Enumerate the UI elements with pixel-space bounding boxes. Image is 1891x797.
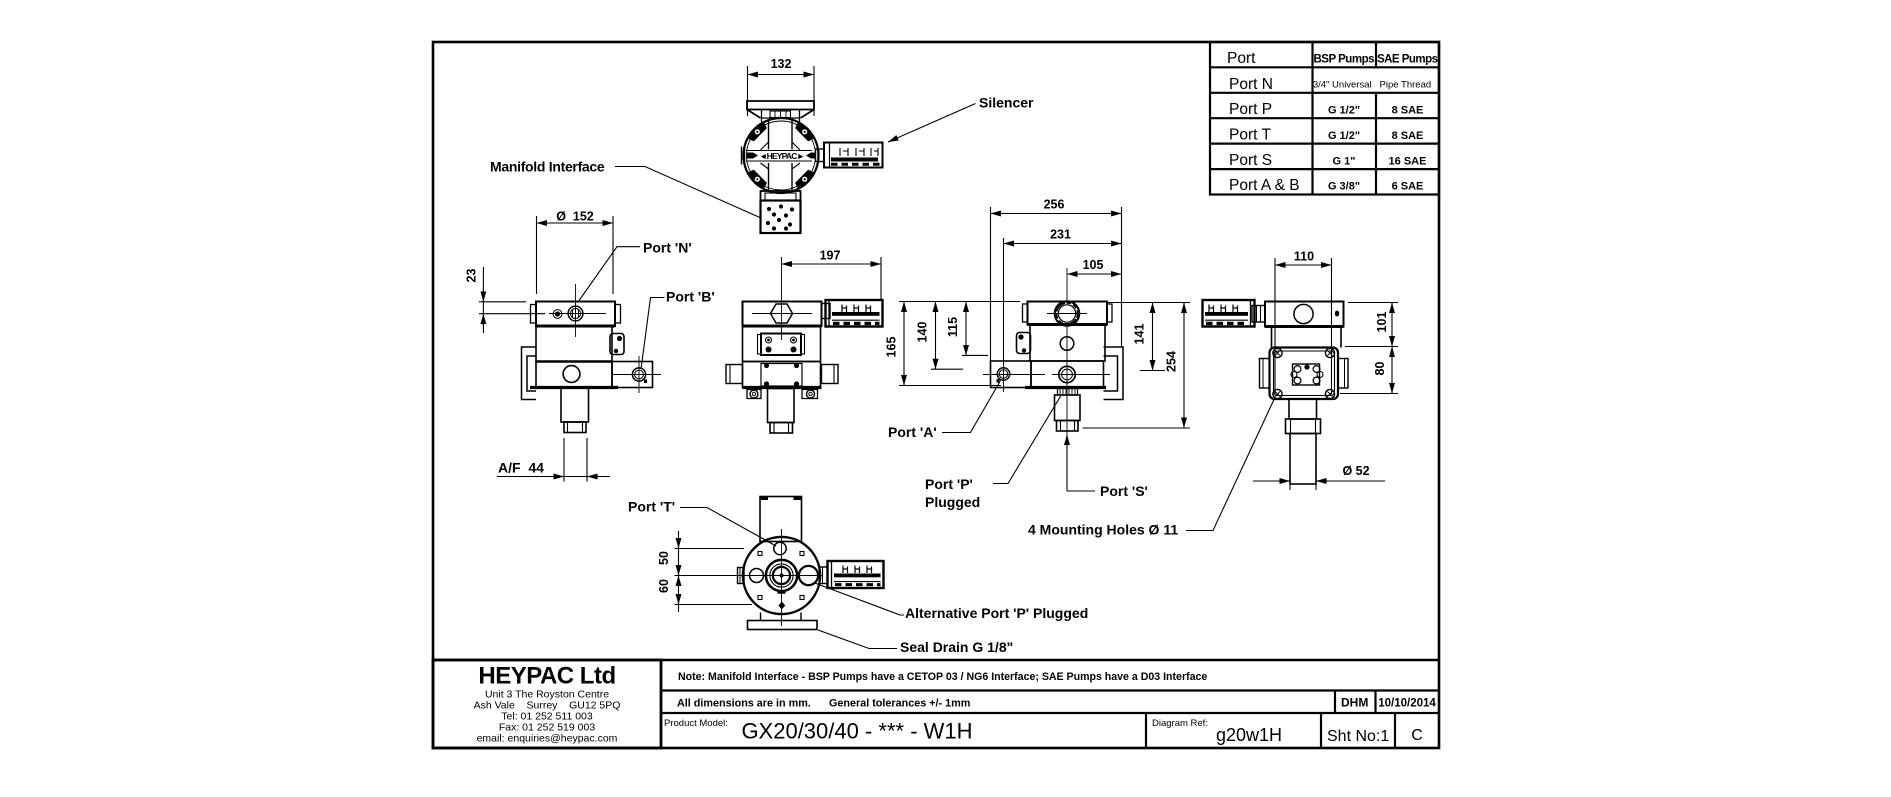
mid band — [1030, 325, 1105, 362]
table column line 2 (skips Port N row) — [1375, 42, 1377, 67]
pump mid band — [536, 326, 612, 362]
dim 52 line with outside arrows — [1253, 480, 1290, 482]
svg-text:50: 50 — [657, 551, 671, 565]
svg-text:110: 110 — [1294, 250, 1314, 264]
body sides below band — [1271, 327, 1273, 348]
right foot bracket — [1104, 347, 1124, 400]
dim 140 — [935, 302, 937, 370]
revision divider — [1394, 713, 1396, 748]
dim 50/60 vertical line — [678, 531, 680, 612]
drawing frame — [433, 42, 1439, 748]
corner bolts lower band — [764, 363, 799, 387]
svg-text:Port: Port — [1227, 50, 1256, 67]
plate corner bolts — [1273, 348, 1282, 357]
svg-text:165: 165 — [885, 337, 899, 358]
table row line 1 — [1210, 66, 1439, 68]
table row line 3 — [1210, 117, 1439, 119]
svg-text:Product Model:: Product Model: — [664, 718, 728, 729]
port P leader — [993, 396, 1061, 484]
svg-text:Port A & B: Port A & B — [1229, 177, 1300, 194]
port table outline — [1210, 42, 1439, 195]
centre name band — [746, 151, 812, 162]
port N centerlines — [575, 284, 577, 337]
dim 101 line — [1391, 303, 1393, 347]
dim 110 line — [1275, 264, 1332, 266]
silencer body back view — [1203, 300, 1255, 327]
svg-text:Port 'B': Port 'B' — [666, 289, 715, 305]
svg-text:Note: Manifold Interface - BSP: Note: Manifold Interface - BSP Pumps hav… — [678, 671, 1207, 683]
dim 101 extensions — [1348, 302, 1398, 304]
diagram ref divider — [1145, 713, 1147, 748]
manifold interface block — [761, 201, 801, 234]
svg-text:197: 197 — [820, 249, 841, 263]
svg-text:G 3/8": G 3/8" — [1328, 181, 1360, 193]
dim 80 line — [1391, 347, 1393, 394]
port A circle — [997, 368, 1009, 380]
svg-text:105: 105 — [1083, 258, 1104, 272]
small square marks — [758, 552, 762, 556]
note strip bottom line — [661, 689, 1439, 691]
view centerline vertical — [1066, 268, 1068, 300]
dim 23 line and arrows — [482, 267, 484, 333]
port P plugged hatch — [1058, 389, 1078, 396]
A/F 44 dim line with outside arrows — [497, 476, 610, 478]
A/F 44 extension lines — [563, 438, 565, 482]
svg-text:Diagram Ref:: Diagram Ref: — [1152, 718, 1208, 729]
port S leader — [1066, 435, 1068, 492]
svg-text:Port 'P': Port 'P' — [925, 476, 973, 492]
dim 197 extension — [880, 257, 882, 300]
dim 254 — [1183, 303, 1185, 429]
svg-text:Ø 52: Ø 52 — [1342, 464, 1369, 478]
svg-text:101: 101 — [1375, 312, 1389, 333]
plate side tabs — [1260, 359, 1270, 389]
port N leader — [578, 247, 640, 302]
dim 110 extension lines — [1274, 258, 1276, 394]
svg-text:A/F 44: A/F 44 — [498, 460, 544, 476]
clamp wedge top-left — [748, 122, 767, 141]
left stub nipple — [738, 568, 745, 584]
sht no divider — [1320, 713, 1322, 748]
svg-text:4 Mounting Holes Ø 11: 4 Mounting Holes Ø 11 — [1028, 522, 1178, 538]
alternative port P — [799, 566, 818, 585]
dims strip bottom line — [661, 712, 1439, 714]
svg-text:Port 'T': Port 'T' — [628, 499, 675, 515]
bottom right ring — [802, 390, 818, 399]
svg-text:C: C — [1411, 727, 1423, 744]
dim 105 line — [1067, 273, 1122, 275]
front view centerline vertical — [781, 257, 783, 340]
lower band front — [743, 362, 821, 388]
svg-text:3/4" Universal Pipe Thread: 3/4" Universal Pipe Thread — [1313, 80, 1431, 91]
tick below hub — [778, 592, 786, 594]
svg-text:Silencer: Silencer — [979, 95, 1034, 111]
DHM box — [1334, 691, 1336, 714]
mid circle — [1060, 337, 1074, 351]
port T leader — [680, 508, 776, 547]
silencer leader — [888, 104, 976, 143]
svg-text:10/10/2014: 10/10/2014 — [1378, 698, 1436, 710]
right stub nipple — [820, 567, 828, 584]
dim 197 line — [782, 263, 882, 265]
port B leader — [641, 298, 665, 370]
dim 152 line — [537, 222, 614, 224]
silencer stub — [1252, 306, 1265, 323]
svg-text:80: 80 — [1373, 362, 1387, 376]
dim 231 extension — [1003, 238, 1005, 360]
port B centerlines — [638, 356, 640, 393]
D03 gasket pattern — [1293, 364, 1320, 385]
dim 231 line — [1004, 243, 1122, 245]
silencer body top view — [824, 143, 883, 168]
svg-text:G 1/2": G 1/2" — [1328, 130, 1360, 142]
thick band separation — [536, 325, 615, 328]
svg-text:Port 'S': Port 'S' — [1100, 483, 1148, 499]
svg-text:G 1/2": G 1/2" — [1328, 105, 1360, 117]
dim 23 extension lines — [479, 301, 526, 303]
svg-text:◄HEYPAC►: ◄HEYPAC► — [759, 151, 805, 161]
lower band — [536, 362, 612, 388]
motor band front — [743, 302, 822, 327]
title block top line — [433, 659, 1439, 661]
svg-text:Plugged: Plugged — [925, 494, 980, 510]
small plug dot — [1335, 311, 1339, 317]
vent circle — [1294, 304, 1313, 323]
svg-text:231: 231 — [1050, 228, 1071, 242]
pump mid band front — [743, 326, 821, 362]
main circle bottom view — [743, 537, 820, 614]
port B housing — [612, 362, 653, 388]
pump body circle — [744, 118, 819, 193]
table column line 1 — [1311, 42, 1313, 195]
svg-text:SAE Pumps: SAE Pumps — [1377, 54, 1438, 66]
filler hex plug — [771, 304, 793, 323]
center hub — [766, 560, 797, 591]
port N threaded circle — [568, 306, 583, 321]
shaft front — [768, 389, 795, 423]
top column — [760, 497, 802, 542]
interface plate — [1270, 348, 1339, 400]
port N top threaded — [1055, 301, 1080, 326]
svg-text:g20w1H: g20w1H — [1216, 725, 1282, 745]
left hole — [750, 569, 764, 583]
svg-text:256: 256 — [1044, 198, 1065, 212]
clamp wedge top-right — [795, 122, 814, 141]
svg-text:Port P: Port P — [1229, 101, 1272, 118]
drain plug circle — [563, 366, 580, 383]
dim 165 — [903, 302, 905, 386]
mounting holes leader — [1186, 400, 1274, 531]
bottom left ring — [747, 390, 761, 399]
svg-text:General tolerances +/- 1mm: General tolerances +/- 1mm — [829, 698, 970, 710]
svg-text:8 SAE: 8 SAE — [1392, 105, 1424, 117]
silencer stub — [822, 304, 831, 319]
dim 50/60 extension lines — [675, 548, 745, 550]
motor top band — [536, 302, 615, 327]
right clamp — [610, 334, 624, 355]
svg-text:GX20/30/40 - *** - W1H: GX20/30/40 - *** - W1H — [741, 719, 972, 744]
left foot bracket — [522, 347, 537, 400]
top view flange — [747, 101, 814, 118]
svg-text:Port S: Port S — [1229, 152, 1272, 169]
port A housing — [991, 361, 1032, 388]
left stub — [742, 147, 745, 165]
dim 152 extension lines — [536, 216, 538, 294]
dim 141 — [1107, 302, 1190, 304]
bottom flange — [748, 621, 818, 630]
165/140/115 top extension line — [899, 301, 1020, 303]
dim 115 — [965, 302, 967, 356]
svg-text:140: 140 — [916, 322, 930, 343]
dim 52 extensions — [1289, 470, 1291, 490]
dim 132 line — [748, 74, 815, 76]
svg-text:254: 254 — [1165, 351, 1179, 372]
svg-text:HEYPAC Ltd: HEYPAC Ltd — [478, 663, 615, 690]
left clamp — [1017, 333, 1031, 354]
manifold leader — [615, 167, 761, 219]
shaft right view — [1055, 395, 1081, 421]
svg-text:16 SAE: 16 SAE — [1389, 156, 1427, 168]
svg-text:email: enquiries@heypac.com: email: enquiries@heypac.com — [477, 733, 618, 745]
svg-text:Port N: Port N — [1229, 76, 1273, 93]
silencer stub right — [816, 149, 825, 162]
port S circle — [1059, 366, 1075, 382]
dim 132 extension lines — [747, 66, 749, 116]
manifold port dots — [766, 204, 794, 230]
centerlines — [781, 529, 783, 626]
table row line 4 — [1210, 143, 1439, 145]
port B circle — [632, 368, 645, 381]
svg-text:Port 'N': Port 'N' — [643, 240, 692, 256]
port A leader — [942, 381, 1001, 433]
svg-text:Ø 152: Ø 152 — [556, 210, 594, 224]
svg-text:Port 'A': Port 'A' — [888, 424, 937, 440]
side wings — [726, 365, 743, 384]
manifold front plate — [761, 334, 801, 356]
svg-text:Seal Drain G 1/8": Seal Drain G 1/8" — [900, 639, 1013, 655]
svg-text:60: 60 — [657, 579, 671, 593]
silencer body front — [826, 300, 883, 327]
clamp wedge bottom-right — [795, 170, 814, 189]
silencer bottom view — [828, 561, 884, 588]
svg-text:DHM: DHM — [1341, 696, 1368, 710]
svg-text:8 SAE: 8 SAE — [1392, 130, 1424, 142]
svg-text:Alternative Port 'P' Plugged: Alternative Port 'P' Plugged — [905, 605, 1088, 621]
svg-text:23: 23 — [465, 269, 479, 283]
seal drain leader — [818, 630, 897, 649]
flange neck — [762, 110, 800, 122]
svg-text:132: 132 — [771, 57, 792, 71]
svg-text:G 1": G 1" — [1333, 156, 1356, 168]
motor band — [1028, 302, 1108, 325]
small breather hole — [553, 310, 562, 319]
dim 256 extensions — [990, 207, 992, 361]
shaft — [561, 388, 589, 423]
heypac company box — [433, 660, 661, 748]
dim 256 line — [991, 213, 1122, 215]
port T circle — [774, 542, 786, 554]
alt port P leader — [814, 583, 905, 616]
svg-text:115: 115 — [946, 317, 960, 337]
svg-text:All dimensions are in mm.: All dimensions are in mm. — [677, 698, 811, 710]
manifold neck — [761, 191, 801, 201]
table row line 2 — [1210, 92, 1439, 94]
svg-text:BSP Pumps: BSP Pumps — [1314, 54, 1375, 66]
lower band — [1031, 361, 1104, 388]
svg-text:6 SAE: 6 SAE — [1392, 181, 1424, 193]
seal drain dot — [778, 602, 785, 610]
svg-text:141: 141 — [1133, 324, 1147, 345]
svg-text:Sht No:1: Sht No:1 — [1327, 728, 1389, 745]
internal column — [769, 119, 793, 191]
clamp wedge bottom-left — [748, 170, 767, 189]
svg-text:Port T: Port T — [1229, 127, 1271, 144]
svg-text:Manifold Interface: Manifold Interface — [490, 159, 605, 175]
motor band back — [1265, 302, 1344, 327]
table row line 5 — [1210, 168, 1439, 170]
shaft back view — [1289, 399, 1317, 419]
